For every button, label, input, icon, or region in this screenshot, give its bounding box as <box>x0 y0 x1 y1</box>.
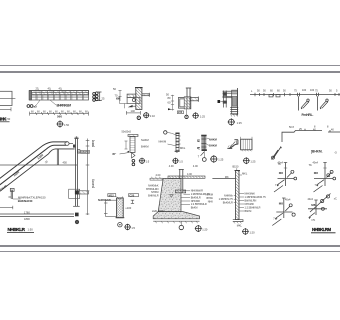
anchor plate <box>175 190 185 193</box>
left callout rows above <box>146 184 159 197</box>
left dim C <box>117 90 128 108</box>
svg-text:MKL: MKL <box>180 146 186 150</box>
main post <box>74 139 78 207</box>
post 1 plan <box>298 93 300 111</box>
plank rails <box>30 91 89 93</box>
leader from plank to weld note <box>36 100 41 106</box>
svg-text:NHKM: NHKM <box>141 138 149 142</box>
sheet border top thick line <box>0 71 340 73</box>
svg-text:NHBKLRM: NHBKLRM <box>312 227 331 232</box>
floor line upper <box>0 164 78 166</box>
svg-text:1:5: 1:5 <box>131 226 135 230</box>
svg-text:1:10: 1:10 <box>150 114 156 118</box>
section dot C <box>137 116 140 119</box>
dimension line under plank <box>30 112 89 116</box>
tube end cap <box>65 142 69 146</box>
weld slash G <box>272 148 281 160</box>
svg-text:[BHKM.: [BHKM. <box>311 150 323 154</box>
right callouts J <box>181 191 190 205</box>
detail bubble K <box>242 228 249 235</box>
svg-text:C8: C8 <box>116 97 120 101</box>
centerline <box>0 97 15 99</box>
plate rectangle (clipped at left) <box>0 91 12 105</box>
level mark <box>170 195 174 198</box>
W2 <box>313 162 336 192</box>
svg-text:NHBKLR: NHBKLR <box>8 227 26 232</box>
column C <box>136 88 142 110</box>
weld circles at left <box>27 105 30 108</box>
beam left C <box>127 94 136 97</box>
svg-text:4.00: 4.00 <box>187 173 192 176</box>
plank left end cap <box>29 91 32 101</box>
short dim line <box>0 207 13 209</box>
post top tick <box>76 136 78 138</box>
svg-text:M8: M8 <box>314 171 318 175</box>
svg-text:FmHRL.: FmHRL. <box>302 113 314 117</box>
post J <box>179 170 184 193</box>
svg-text:M8: M8 <box>279 201 283 205</box>
svg-text:40x4: 40x4 <box>313 162 319 165</box>
svg-text:1:50: 1:50 <box>28 228 34 232</box>
ground band right <box>168 176 205 178</box>
dimension line <box>0 108 11 110</box>
handrail top tube lower line <box>0 145 66 187</box>
right dim line <box>86 139 90 216</box>
rail labels <box>251 89 338 93</box>
svg-text:1:25: 1:25 <box>200 114 206 118</box>
svg-text:40x4: 40x4 <box>308 198 314 201</box>
right callouts K <box>239 194 244 212</box>
bottom dim C <box>126 111 140 115</box>
bolt circle C <box>132 99 135 102</box>
svg-text:1800: 1800 <box>24 217 30 221</box>
svg-text:2aKL150N: 2aKL150N <box>152 210 164 213</box>
W4 <box>308 194 338 222</box>
detail bubble D <box>192 112 199 119</box>
svg-text:C20: C20 <box>129 193 134 197</box>
detail bubble C <box>143 112 149 118</box>
leader to note <box>50 100 56 105</box>
svg-text:M8: M8 <box>311 203 315 207</box>
svg-text:1:20: 1:20 <box>202 227 208 231</box>
left dim D <box>171 95 174 111</box>
weld square E <box>218 100 221 103</box>
beam right of post <box>78 150 80 154</box>
svg-text:40x4: 40x4 <box>278 162 284 165</box>
bolt circle J <box>179 225 183 229</box>
svg-text:1:25: 1:25 <box>250 159 256 163</box>
svg-text:1:5: 1:5 <box>179 160 183 164</box>
svg-text:MK: MK <box>225 176 229 179</box>
leader to notes <box>13 198 21 200</box>
main rail line <box>250 94 340 96</box>
hatch joint D <box>184 97 191 109</box>
svg-text:NHKMbKR: NHKMbKR <box>98 199 111 202</box>
handrail top tube upper line <box>0 142 67 181</box>
ground band left <box>150 178 163 180</box>
svg-text:[1100]: [1100] <box>91 179 95 188</box>
wall K <box>236 171 240 220</box>
sheet border top thin line <box>0 65 340 67</box>
top leader labels <box>38 90 64 93</box>
weld wedge C <box>128 105 133 107</box>
plank dividers <box>36 91 82 101</box>
svg-text:HN150: HN150 <box>81 151 89 154</box>
cross lines E <box>223 91 238 98</box>
svg-text:4.00: 4.00 <box>169 165 174 168</box>
svg-text:NHKM: NHKM <box>209 137 217 141</box>
svg-text:BHKM: BHKM <box>209 144 217 148</box>
svg-text:MKL: MKL <box>237 224 243 227</box>
right end rings (bar section) <box>93 92 98 101</box>
boxed note right of post <box>81 150 90 153</box>
detail bubble B <box>56 120 63 127</box>
svg-text:1:5: 1:5 <box>146 160 150 164</box>
sheet border bottom thin line <box>0 251 340 253</box>
svg-text:40x4: 40x4 <box>285 198 291 201</box>
base K <box>233 220 243 222</box>
svg-text:NHKM: NHKM <box>159 140 167 144</box>
plank outline <box>30 91 89 101</box>
label box D <box>177 111 183 114</box>
baluster mid <box>57 149 58 165</box>
weld slash post2 <box>320 101 328 108</box>
svg-text:M8: M8 <box>279 171 283 175</box>
rail-post plate <box>73 145 75 148</box>
column cap <box>135 87 143 89</box>
svg-text:1:50: 1:50 <box>64 123 70 127</box>
anchor block on post <box>69 189 80 198</box>
svg-text:1:25: 1:25 <box>218 158 224 162</box>
left dim bar E <box>224 91 227 108</box>
svg-text:BHKNLR40: BHKNLR40 <box>18 199 33 203</box>
top cap K <box>235 170 241 172</box>
svg-text:a5: a5 <box>34 105 38 109</box>
svg-text:50x50x5: 50x50x5 <box>122 130 132 133</box>
svg-text:MKL: MKL <box>242 172 248 175</box>
svg-text:1760: 1760 <box>24 210 30 214</box>
svg-text:B150: B150 <box>233 165 239 168</box>
W3 <box>272 198 295 226</box>
main column E <box>232 90 238 114</box>
sheet border bottom thick line <box>0 245 340 247</box>
svg-text:[900]: [900] <box>91 140 95 147</box>
svg-text:xC: xC <box>334 197 337 200</box>
svg-text:BbKM: BbKM <box>245 210 252 213</box>
detail bubble E <box>228 118 235 125</box>
post foot <box>75 213 79 217</box>
svg-text:50 8: 50 8 <box>289 126 294 129</box>
channel D <box>178 98 184 109</box>
beam right D <box>190 98 198 101</box>
plate rect C <box>127 97 140 103</box>
post 2 plan <box>317 93 319 111</box>
svg-text:BHKM: BHKM <box>141 145 149 149</box>
svg-text:100: 100 <box>302 89 307 92</box>
detail bubble J <box>195 225 202 232</box>
svg-text:BHRNKEM: BHRNKEM <box>57 104 72 108</box>
footing <box>153 212 199 219</box>
left callouts K <box>219 195 234 205</box>
ground double line <box>0 213 74 215</box>
weld slash post1 <box>301 101 309 108</box>
svg-text:BbKM: BbKM <box>191 207 198 210</box>
beam right C <box>142 94 149 96</box>
svg-text:560: 560 <box>57 114 62 118</box>
svg-text:BbKMLR: BbKMLR <box>223 202 233 205</box>
svg-text:4.00: 4.00 <box>156 174 161 177</box>
post D <box>186 88 191 109</box>
svg-text:4.00: 4.00 <box>193 165 198 168</box>
W1 <box>274 162 297 192</box>
svg-text:1:20: 1:20 <box>250 230 256 234</box>
svg-text:L50: L50 <box>178 111 183 114</box>
svg-text:1:50: 1:50 <box>5 117 11 121</box>
T mark right of rings <box>98 92 102 101</box>
svg-text:450: 450 <box>63 161 68 165</box>
wall stipple <box>158 179 181 212</box>
svg-text:≥100: ≥100 <box>125 206 131 210</box>
svg-text:NHK: NHK <box>208 201 214 204</box>
floor line left K <box>212 178 235 180</box>
svg-text:1:25: 1:25 <box>237 121 243 125</box>
middle rail <box>0 149 75 194</box>
svg-text:/7b: /7b <box>311 218 315 222</box>
svg-text:BHKMLR: BHKMLR <box>148 195 159 198</box>
column bottom bands E <box>230 108 238 114</box>
small plates along rail <box>255 93 339 97</box>
lower end post of rail <box>8 188 14 199</box>
section dot D <box>185 115 188 118</box>
svg-text:45°: 45° <box>112 152 116 156</box>
svg-text:M12: M12 <box>109 193 115 197</box>
svg-text:140: 140 <box>131 109 136 113</box>
